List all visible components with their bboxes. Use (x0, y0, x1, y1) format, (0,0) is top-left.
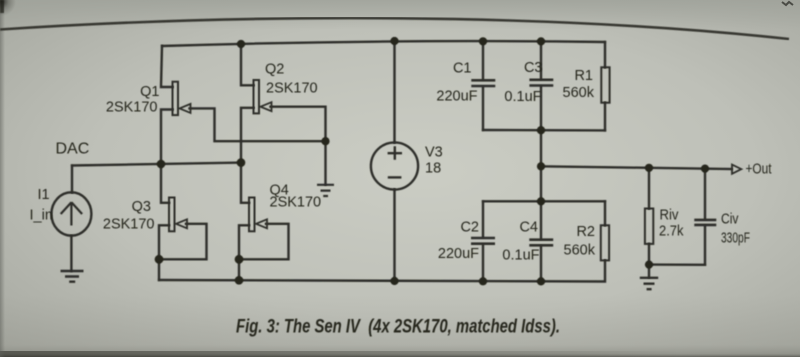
resistor R2 body (601, 225, 609, 260)
wire: R2 top lead (604, 201, 606, 225)
node: gate bus ground junction (321, 137, 329, 145)
svg-text:330pF: 330pF (721, 231, 750, 247)
wire: DAC input rail from I1 to Q2/Q4 column (72, 163, 241, 166)
wire: I1 top lead (71, 166, 73, 193)
node: bottom rail / Q4 junction (235, 276, 244, 285)
node: top rail / V3 junction (390, 37, 398, 45)
node: Riv-Civ bottom junction (645, 261, 653, 269)
wire: C3 leads (540, 41, 542, 130)
transistor Q1 2SK170 body bar (173, 82, 179, 115)
svg-text:2SK170: 2SK170 (270, 195, 322, 211)
svg-text:560k: 560k (563, 85, 595, 101)
wire: C2-C4-R2 top bus (483, 200, 605, 202)
svg-text:R2: R2 (576, 224, 595, 240)
ground: gate bus ground symbol (317, 185, 334, 196)
voltage source V3 circle (371, 142, 418, 189)
svg-text:DAC: DAC (56, 141, 90, 158)
capacitor C4 plates (529, 240, 553, 246)
wire: bottom common rail (159, 260, 605, 281)
svg-text:Q1: Q1 (140, 84, 159, 100)
node: output rail / Civ junction (701, 165, 709, 173)
node: bottom rail / V3 junction (390, 277, 398, 285)
svg-text:R1: R1 (574, 68, 593, 84)
capacitor Civ plates (694, 220, 716, 225)
wire: Q4 gate-source loop (239, 224, 289, 259)
capacitor C1 plates (471, 80, 495, 86)
svg-text:C2: C2 (460, 219, 479, 235)
wire: gate node down to ground (324, 141, 326, 184)
node: C2-C4 top bus junction (537, 197, 545, 205)
wire: Q2 gate down to grounded gate node (271, 107, 326, 142)
svg-text:2SK170: 2SK170 (103, 217, 155, 233)
wire: I1 bottom lead to ground (70, 236, 72, 271)
svg-text:0.1uF: 0.1uF (502, 248, 539, 264)
wire: link output node down to C4 bus (540, 166, 542, 201)
current source I1 circle (51, 192, 91, 235)
wire: C2 leads (482, 201, 484, 281)
wire: Riv ground stem (648, 265, 650, 278)
resistor R1 body (601, 67, 609, 102)
node: C1-C3 bottom bus junction (537, 126, 545, 134)
small printed mark top-right corner (782, 2, 793, 5)
svg-text:Riv: Riv (660, 208, 680, 224)
transistor Q2 gate arrow (261, 102, 272, 111)
node: DAC rail / Q1-Q3 junction (157, 160, 166, 169)
svg-text:18: 18 (425, 160, 441, 176)
wire: C1 leads (482, 41, 484, 130)
svg-text:C4: C4 (519, 219, 538, 235)
svg-text:0.1uF: 0.1uF (504, 89, 541, 105)
transistor Q4 2SK170 body bar (249, 198, 255, 232)
node: Q3 gate-source loop junction (155, 255, 164, 264)
wire: Q3 gate-source loop (159, 224, 207, 259)
capacitor C2 plates (471, 238, 495, 244)
voltage source V3 minus sign (388, 176, 402, 178)
wire: Q2 source lead down to DAC node (crosses gate bus, no joint) (241, 108, 254, 163)
wire: Riv-Civ bottom link (649, 263, 705, 266)
wire: Q3 drain lead from DAC node (161, 164, 169, 203)
node: top rail / C3 junction (537, 37, 545, 45)
resistor Riv body (645, 209, 653, 244)
svg-text:+Out: +Out (746, 160, 773, 177)
wire: top supply rail (162, 41, 605, 46)
node: DAC rail / Q2-Q4 junction (237, 158, 246, 167)
wire: output rail to +Out (541, 166, 732, 169)
wire: Q1 source lead down to DAC node (161, 110, 173, 165)
wire: Q4 drain lead from DAC node (241, 163, 249, 203)
voltage source V3 plus sign (388, 146, 402, 160)
transistor Q1 gate arrow (180, 104, 191, 113)
capacitor C3 plates (529, 80, 553, 86)
current source I1 arrow (61, 202, 82, 225)
wire: C4 leads (540, 201, 542, 281)
svg-text:Fig. 3: The Sen IV (4x 2SK170: Fig. 3: The Sen IV (4x 2SK170, matched I… (236, 317, 560, 338)
svg-text:2.7k: 2.7k (659, 224, 684, 240)
wire: Riv leads (648, 168, 650, 265)
node: Q4 gate-source loop junction (235, 255, 244, 264)
svg-text:I_in: I_in (30, 207, 53, 223)
node: top rail / C1 junction (479, 37, 487, 45)
svg-text:560k: 560k (564, 243, 596, 259)
transistor Q4 gate arrow (256, 219, 267, 228)
wire: Q4 source node down to bottom rail (238, 259, 240, 280)
wire: C1-C3-R1 bottom bus (483, 129, 605, 132)
wire: V3 top lead (393, 41, 395, 143)
node: output rail / Riv junction (645, 164, 653, 172)
svg-text:2SK170: 2SK170 (106, 100, 158, 116)
node: top rail / Q2 drain junction (237, 40, 245, 48)
node: output rail / C3 link junction (537, 162, 545, 170)
svg-text:Q3: Q3 (132, 199, 151, 215)
svg-text:C3: C3 (524, 60, 543, 76)
transistor Q2 2SK170 body bar (254, 80, 260, 113)
svg-text:C1: C1 (453, 61, 472, 77)
ground: Riv ground symbol (640, 278, 658, 289)
wire: Q3 source lead to loop node (159, 225, 169, 259)
wire: V3 bottom lead (393, 190, 395, 282)
transistor Q3 2SK170 body bar (169, 198, 175, 232)
node: bottom rail / C4 junction (537, 277, 545, 285)
transistor Q3 gate arrow (176, 219, 187, 228)
svg-text:220uF: 220uF (438, 246, 479, 262)
svg-text:V3: V3 (425, 144, 443, 160)
node: bottom rail / C2 junction (479, 277, 487, 285)
svg-text:2SK170: 2SK170 (266, 81, 318, 97)
wire: Civ leads (704, 169, 706, 265)
wire: Q1 gate to gate-bus (190, 108, 326, 141)
svg-text:Civ: Civ (721, 212, 739, 228)
page top edge curve (0, 18, 789, 39)
output terminal arrow +Out (732, 165, 741, 174)
wire: Q1 drain lead from top rail (161, 46, 173, 87)
ground: I1 ground symbol (61, 271, 84, 282)
wire: Q4 source lead to loop node (239, 225, 249, 259)
svg-text:I1: I1 (38, 187, 50, 203)
wire: Q2 drain lead from top rail (241, 44, 254, 85)
wire: Q3 source node down to bottom rail (158, 259, 160, 280)
svg-text:220uF: 220uF (436, 89, 477, 105)
svg-text:Q2: Q2 (265, 62, 284, 78)
wire: R1 leads (604, 42, 606, 130)
wire: link C3 bus down to output node (540, 130, 542, 166)
